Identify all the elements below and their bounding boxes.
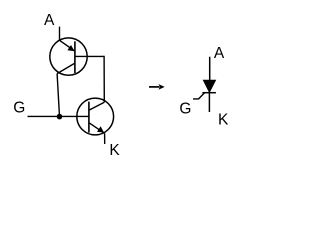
wire thyristor gate lead: [193, 93, 205, 99]
arrow equivalence (points right): [149, 84, 165, 90]
wire gate line G to Q2 base: [28, 115, 89, 117]
svg-text:K: K: [218, 111, 229, 128]
svg-text:A: A: [214, 45, 225, 62]
transistor Q1 base bar: [74, 41, 76, 73]
svg-text:G: G: [179, 100, 191, 117]
wire Q1 base to Q2 collector (vertical): [103, 56, 105, 102]
transistor Q2 base bar: [88, 102, 90, 133]
transistor Q1 collector line: [57, 63, 75, 74]
transistor Q2 emitter arrowhead (NPN, points out): [97, 126, 104, 132]
thyristor SCR triangle: [204, 80, 216, 92]
wire Q1 base lead: [75, 55, 104, 57]
transistor Q1 emitter line: [60, 40, 75, 51]
wire thyristor cathode lead: [208, 93, 210, 112]
wire thyristor anode lead: [209, 57, 211, 81]
svg-text:A: A: [44, 12, 55, 29]
transistor Q1 emitter arrowhead (PNP, points into base): [67, 45, 74, 51]
junction dot gate node: [57, 114, 63, 120]
thyristor cathode bar: [202, 92, 216, 94]
wire anode lead to Q1 emitter: [59, 27, 61, 41]
transistor Q2 NPN body circle: [77, 98, 114, 135]
svg-text:G: G: [13, 100, 25, 117]
transistor Q1 PNP body circle: [50, 38, 87, 75]
wire Q2 emitter to cathode K: [104, 133, 106, 144]
transistor Q2 emitter line: [89, 123, 105, 134]
wire Q1 collector to gate node: [57, 74, 59, 117]
svg-text:K: K: [109, 142, 120, 159]
transistor Q2 collector line: [89, 102, 104, 110]
